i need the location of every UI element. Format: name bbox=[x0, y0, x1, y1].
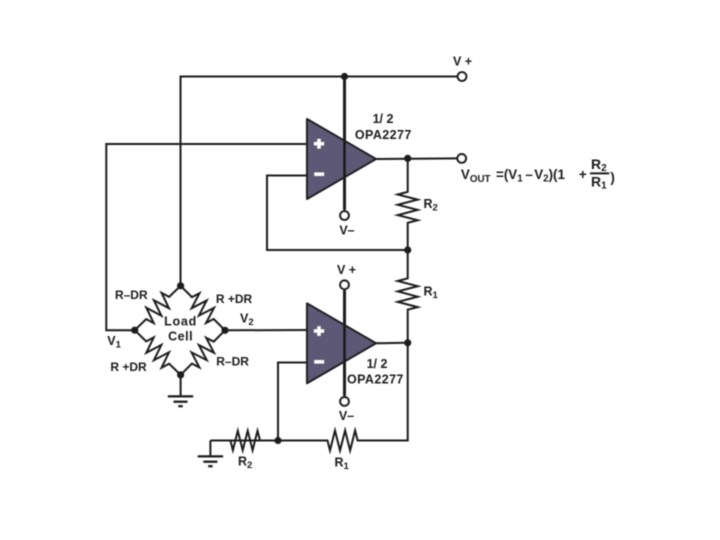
svg-text:R +DR: R +DR bbox=[110, 360, 147, 374]
svg-text:V +: V + bbox=[337, 263, 356, 277]
svg-text:1/ 2: 1/ 2 bbox=[373, 112, 394, 126]
svg-text:): ) bbox=[610, 170, 614, 185]
svg-text:V–: V– bbox=[339, 224, 354, 238]
svg-text:R2: R2 bbox=[591, 156, 607, 174]
svg-text:R2: R2 bbox=[238, 455, 252, 472]
svg-text:R1: R1 bbox=[591, 173, 607, 191]
svg-text:OPA2277: OPA2277 bbox=[355, 128, 412, 142]
svg-text:R–DR: R–DR bbox=[115, 288, 148, 302]
svg-text:R +DR: R +DR bbox=[216, 292, 253, 306]
svg-text:V2: V2 bbox=[240, 312, 254, 329]
svg-text:Load: Load bbox=[164, 315, 197, 329]
svg-text:VOUT=(V1–V2)(1+: VOUT=(V1–V2)(1+ bbox=[461, 167, 587, 185]
svg-text:1/ 2: 1/ 2 bbox=[367, 357, 388, 371]
svg-text:V1: V1 bbox=[107, 334, 121, 351]
svg-text:R1: R1 bbox=[335, 456, 350, 473]
svg-text:R1: R1 bbox=[424, 285, 439, 302]
svg-text:R2: R2 bbox=[424, 197, 438, 214]
svg-text:V +: V + bbox=[453, 55, 472, 69]
svg-text:V–: V– bbox=[339, 409, 354, 423]
svg-text:Cell: Cell bbox=[168, 330, 193, 344]
svg-text:R–DR: R–DR bbox=[216, 355, 249, 369]
svg-text:OPA2277: OPA2277 bbox=[347, 373, 404, 387]
